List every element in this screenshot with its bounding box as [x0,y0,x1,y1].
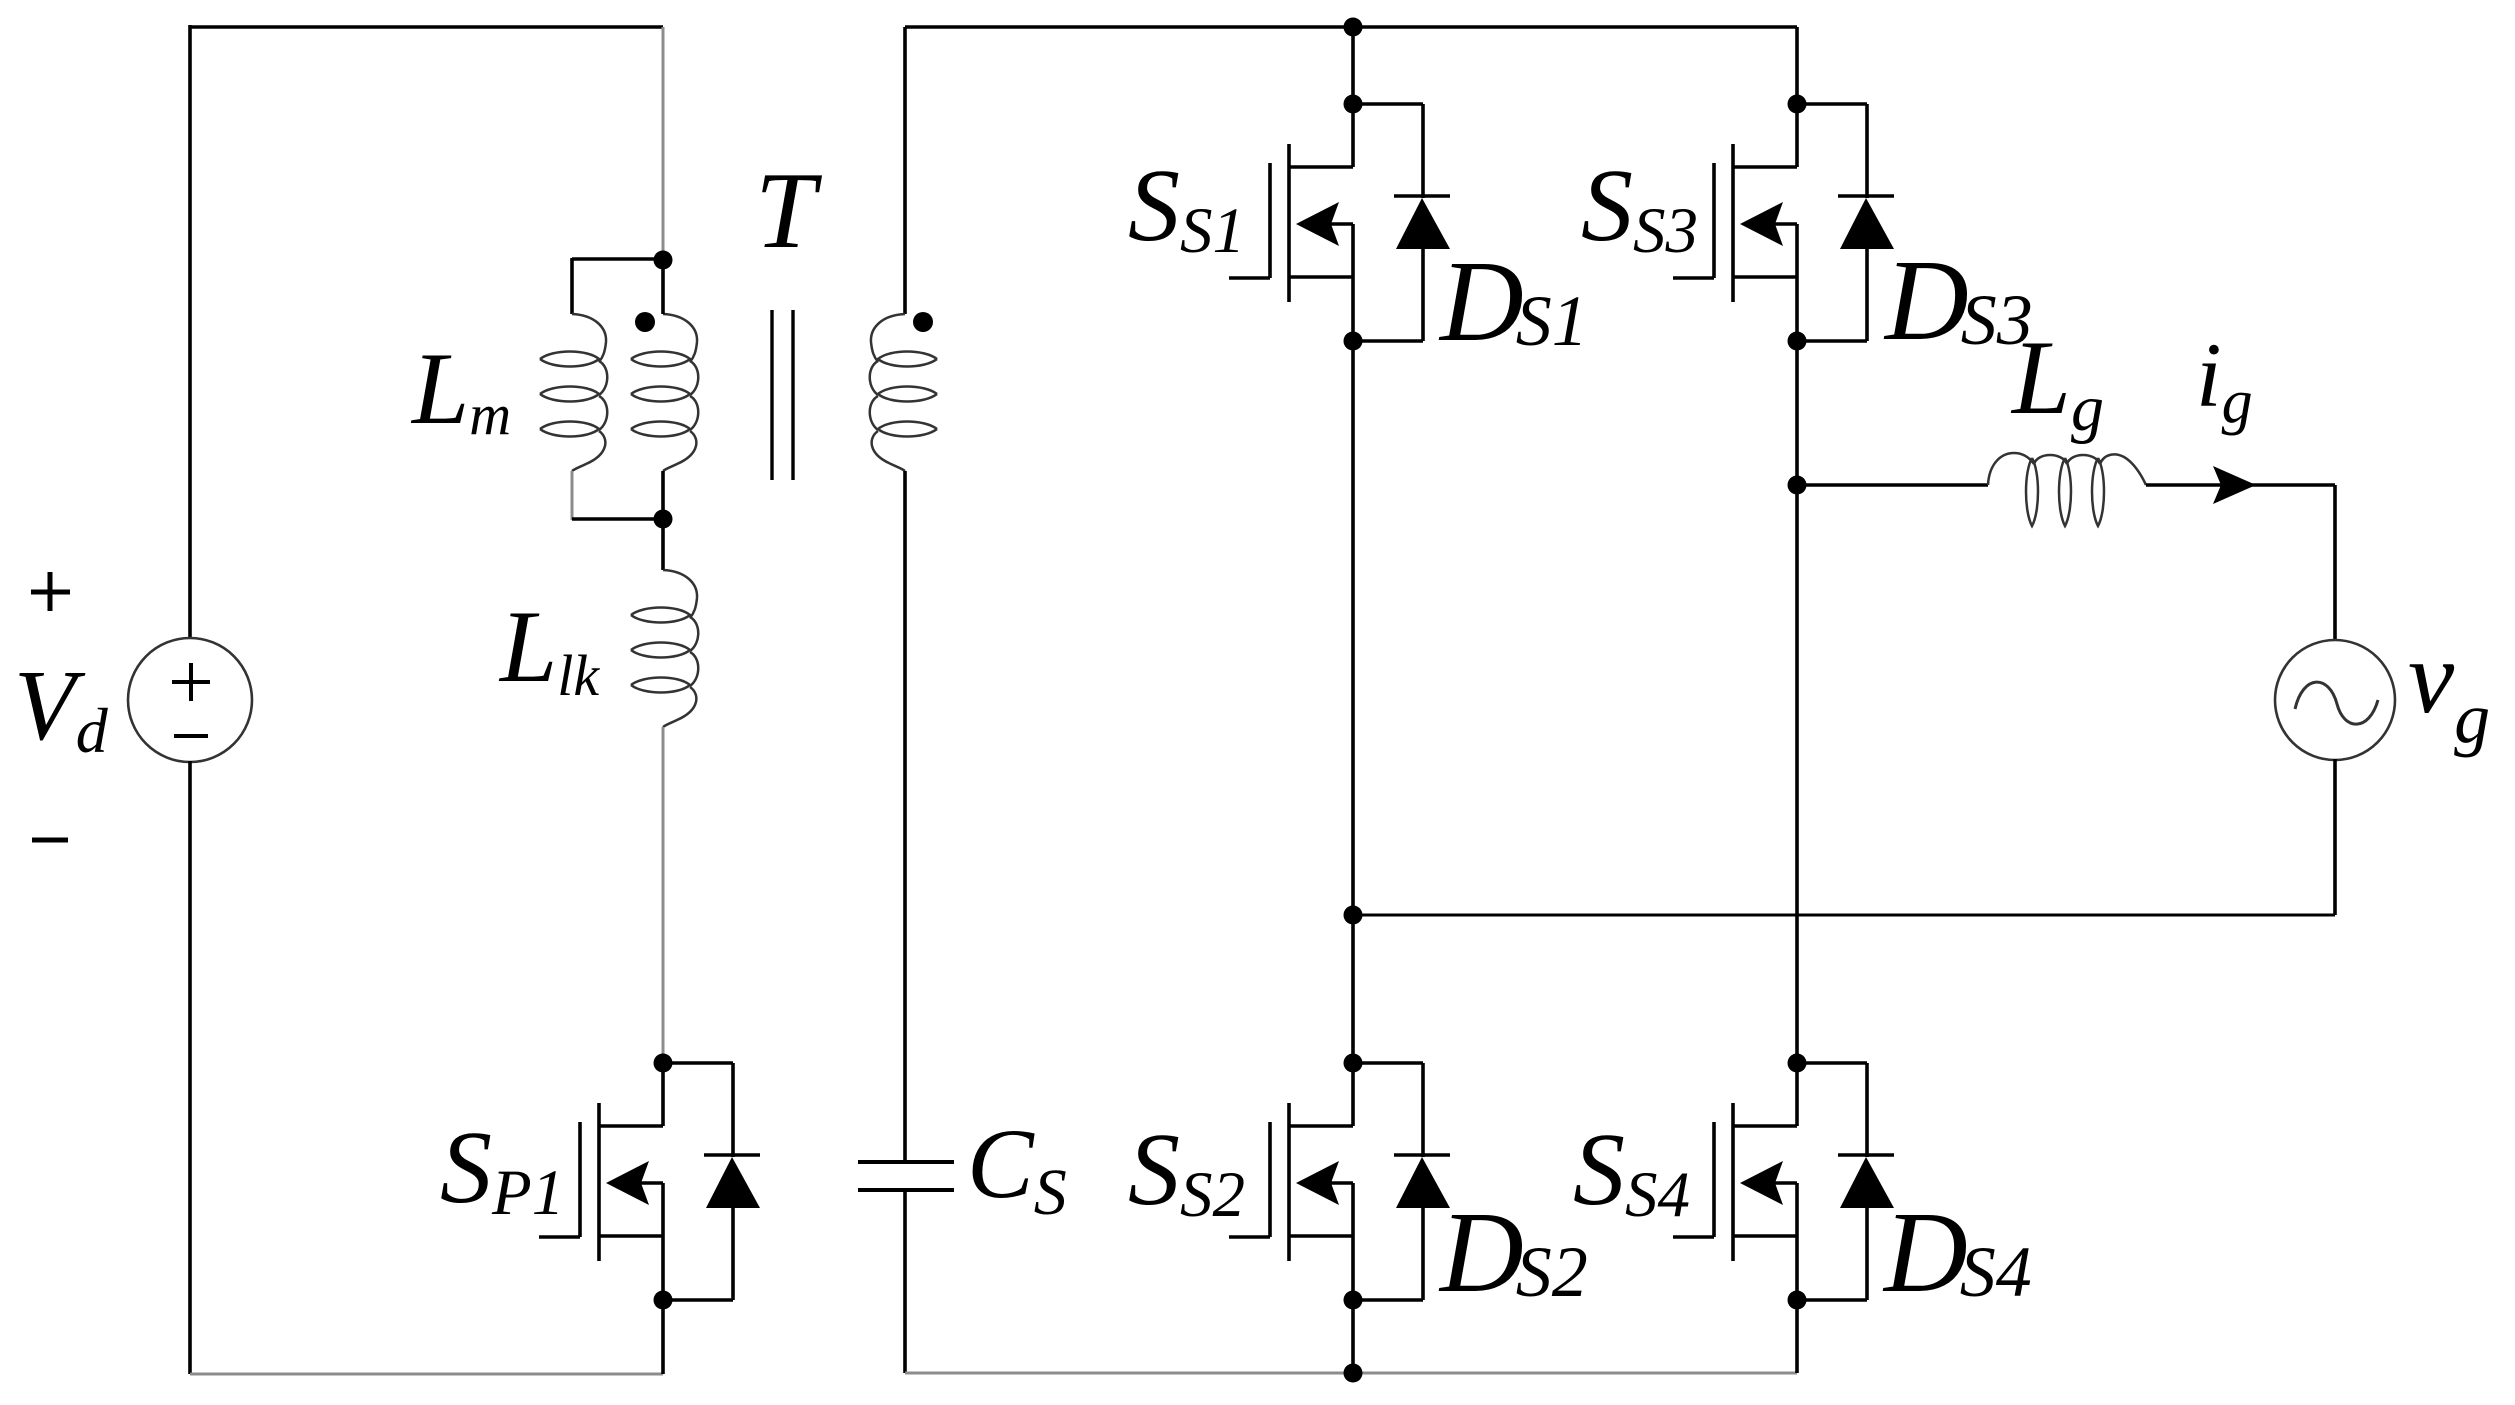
SP1 drain wire [661,1063,665,1126]
DP1 body diode of SP1 bottom connection [663,1298,733,1302]
SS4 drain stub [1733,1124,1797,1128]
wire primary top bus [190,25,663,29]
DP1 body diode of SP1 cathode wire [731,1063,735,1157]
Vd internal plus horizontal [172,680,210,684]
node SS3 source [1788,332,1807,351]
Vd internal plus vertical [189,663,193,701]
wire Lm bottom stub [572,517,663,521]
node B output right [1788,476,1807,495]
wire left rail upper [188,25,192,639]
node SS1 source [1344,332,1363,351]
wire SS1 drain from bus [1351,27,1355,104]
SS1 drain stub [1289,165,1353,169]
polarity dot primary [635,312,655,332]
polarity dot secondary [913,312,933,332]
SS3 drain stub [1733,165,1797,169]
wire vg to return corner [2333,759,2337,915]
SS1 source wire [1351,224,1355,341]
svg-text:DS1: DS1 [1438,238,1588,366]
wire Llk top [661,519,665,570]
wire primary winding top [661,261,665,314]
DS4 cathode wire [1865,1063,1869,1157]
node Lm bottom junction [654,510,673,529]
SS1 channel [1287,144,1291,302]
SS4 channel [1731,1103,1735,1261]
wire Lm top stub [572,257,663,261]
SS2 body stub with arrow [1329,1181,1353,1185]
DS3 cathode bar [1838,194,1894,198]
transformer primary winding winding coil [631,314,698,471]
diode DS2 [1353,1063,1450,1300]
node SS4 source [1788,1291,1807,1310]
svg-text:ig: ig [2196,324,2253,436]
DS1 cathode wire [1421,104,1425,198]
SS3 gate lead [1673,276,1714,280]
DS1 top connection [1353,102,1423,106]
wire Lm left stub lower [571,471,574,520]
wire left rail lower [188,761,192,1374]
polarity minus sign [32,838,68,843]
svg-text:Vd: Vd [14,649,109,766]
SS4 drain wire [1795,1063,1799,1126]
inductor Llk winding coil [631,570,698,727]
SS4 gate lead [1673,1235,1714,1239]
svg-text:SP1: SP1 [440,1110,564,1229]
DS4 triangle [1840,1157,1894,1208]
svg-text:SS1: SS1 [1128,148,1245,267]
wire Lm left stub upper [570,258,574,314]
SS1 gate bar [1268,163,1272,278]
wire SS2 to bottom bus [1351,1300,1355,1373]
SP1 channel [597,1103,601,1261]
DS2 anode wire [1421,1207,1425,1300]
wire left leg middle [1351,341,1355,1063]
DP1 body diode of SP1 top connection [663,1061,733,1065]
svg-text:SS4: SS4 [1573,1112,1690,1231]
DS2 triangle [1396,1157,1450,1208]
node secondary bottom bus junction [1344,1364,1363,1383]
svg-text:Lg: Lg [2010,319,2104,445]
SS2 gate bar [1268,1122,1272,1237]
svg-text:T: T [755,150,823,271]
SS4 gate bar [1712,1122,1716,1237]
SS1 source stub [1289,275,1353,279]
diode DS3 [1797,104,1894,341]
wire node B to Lg [1797,483,1988,487]
diode DS1 [1353,104,1450,341]
node SS3 drain [1788,95,1807,114]
node A output left [1344,906,1363,925]
DS1 anode wire [1421,248,1425,341]
wire secondary vertical middle [903,471,907,1163]
node SS1 drain [1344,95,1363,114]
SP1 source stub [599,1234,663,1238]
SS3 drain wire [1795,104,1799,167]
transformer core line 1 [770,310,773,480]
SP1 gate bar [578,1122,582,1237]
DP1 body diode of SP1 triangle [706,1157,760,1208]
wire SS4 to bottom bus [1795,1300,1799,1373]
SS2 channel [1287,1103,1291,1261]
DS1 bottom connection [1353,339,1423,343]
svg-text:Lm: Lm [410,332,511,447]
DS4 top connection [1797,1061,1867,1065]
SS2 gate lead [1229,1235,1270,1239]
wire secondary bottom bus [905,1372,1797,1375]
SP1 source wire [661,1183,665,1300]
diode DS4 [1797,1063,1894,1300]
SS3 channel [1731,144,1735,302]
transistor SS4 [1673,1063,1797,1300]
SS1 gate lead [1229,276,1270,280]
DS1 triangle [1396,198,1450,249]
polarity plus sign horizontal [31,590,70,595]
capacitor CS top plate [858,1160,954,1164]
wire Llk bottom [662,727,665,1063]
node SS2 drain [1344,1054,1363,1073]
inductor Lm left winding coil [540,314,607,471]
node SS4 drain [1788,1054,1807,1073]
inductor Lg inductor coil [1988,453,2146,526]
SS2 source wire [1351,1183,1355,1300]
DS4 cathode bar [1838,1153,1894,1157]
diode DP1 body diode of SP1 [663,1063,760,1300]
wire CS to bottom bus [903,1190,907,1373]
SS4 source stub [1733,1234,1797,1238]
DS3 triangle [1840,198,1894,249]
wire primary bottom [190,1373,663,1376]
transistor SS2 [1229,1063,1353,1300]
svg-text:DS2: DS2 [1438,1189,1588,1317]
DS3 cathode wire [1865,104,1869,198]
DS1 cathode bar [1394,194,1450,198]
SP1 body stub with arrow [639,1181,663,1185]
node secondary top bus junction [1344,18,1363,37]
wire right leg middle [1795,341,1799,1063]
wire return horizontal [1353,914,2335,917]
svg-text:SS2: SS2 [1128,1112,1245,1231]
SS4 body stub with arrow [1773,1181,1797,1185]
wire SS3 drain from bus [1795,27,1799,104]
DS3 anode wire [1865,248,1869,341]
svg-text:CS: CS [967,1108,1067,1229]
DP1 body diode of SP1 anode wire [731,1207,735,1300]
current arrow ig [2213,466,2256,504]
SS1 body stub with arrow [1329,222,1353,226]
SS1 drain wire [1351,104,1355,167]
node SP1 drain [654,1054,673,1073]
transistor SP1 [539,1063,663,1300]
transformer core line 2 [791,310,794,480]
node SS2 source [1344,1291,1363,1310]
capacitor CS bottom plate [858,1188,954,1192]
wire primary winding bottom [661,471,665,519]
transistor SS1 [1229,104,1353,341]
SS3 source stub [1733,275,1797,279]
svg-text:Llk: Llk [498,590,600,708]
wire secondary top bus [905,25,1797,29]
wire Lg to corner [2146,483,2335,487]
voltage source Vd circle [128,638,252,762]
svg-text:vg: vg [2408,620,2490,758]
wire SP1 to bottom [661,1300,665,1374]
SS3 gate bar [1712,163,1716,278]
svg-text:DS4: DS4 [1882,1189,2032,1317]
DP1 body diode of SP1 cathode bar [704,1153,760,1157]
SS3 source wire [1795,224,1799,341]
DS4 anode wire [1865,1207,1869,1300]
SS2 drain stub [1289,1124,1353,1128]
DS2 bottom connection [1353,1298,1423,1302]
SS2 source stub [1289,1234,1353,1238]
SP1 drain stub [599,1124,663,1128]
transformer secondary winding winding coil [870,314,937,471]
Vd internal minus [174,734,208,738]
polarity plus sign vertical [48,572,53,611]
DS4 bottom connection [1797,1298,1867,1302]
voltage source vg circle [2275,640,2395,760]
svg-text:DS3: DS3 [1883,237,2033,365]
node SP1 source [654,1291,673,1310]
SP1 gate lead [539,1235,580,1239]
DS2 top connection [1353,1061,1423,1065]
node Lm top junction [654,251,673,270]
DS2 cathode bar [1394,1153,1450,1157]
wire secondary vertical top [903,27,907,314]
SS3 body stub with arrow [1773,222,1797,226]
svg-text:SS3: SS3 [1581,148,1698,267]
transistor SS3 [1673,104,1797,341]
SS2 drain wire [1351,1063,1355,1126]
DS3 top connection [1797,102,1867,106]
wire primary vertical upper [662,27,665,261]
DS2 cathode wire [1421,1063,1425,1157]
SS4 source wire [1795,1183,1799,1300]
wire right edge down [2333,485,2337,641]
DS3 bottom connection [1797,339,1867,343]
vg sine symbol [2295,682,2378,724]
